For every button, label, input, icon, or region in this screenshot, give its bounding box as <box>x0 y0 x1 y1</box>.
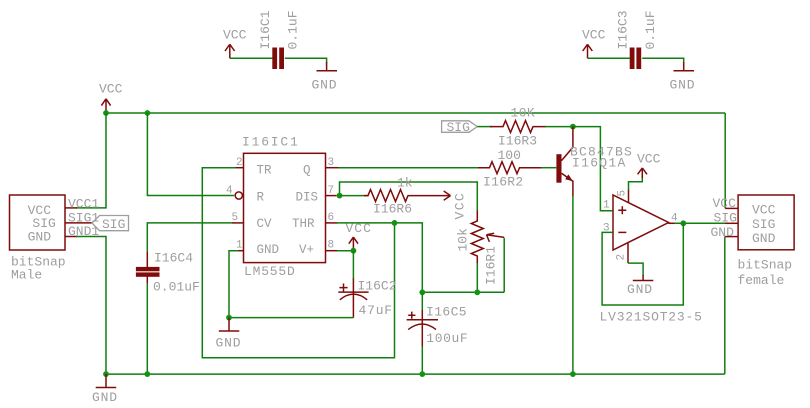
svg-text:VCC: VCC <box>713 196 737 211</box>
capacitor C5 polarized <box>407 292 469 347</box>
wire VCC rail <box>106 112 725 114</box>
node VCC rail left <box>103 110 109 116</box>
wire <box>588 57 630 59</box>
wire pin5 to VCC arrow <box>629 177 643 190</box>
node DIS junction <box>337 193 343 199</box>
svg-text:8: 8 <box>328 239 335 251</box>
pin 3 Q <box>326 157 339 169</box>
supply VCC top-right bypass <box>582 28 606 59</box>
svg-text:VCC: VCC <box>346 221 372 236</box>
svg-text:SIG: SIG <box>447 120 470 135</box>
svg-text:GND: GND <box>257 243 280 257</box>
svg-text:LM555D: LM555D <box>244 264 296 279</box>
wire ground rail <box>106 373 725 375</box>
svg-text:GND: GND <box>752 231 776 246</box>
svg-text:I16C5: I16C5 <box>426 304 467 319</box>
resistor R1 10k vertical <box>456 211 505 286</box>
ground GND mid <box>216 318 242 351</box>
wire R1 bottom <box>476 263 478 292</box>
svg-text:LV321SOT23-5: LV321SOT23-5 <box>600 309 703 324</box>
svg-text:VCC: VCC <box>637 151 661 166</box>
supply VCC main rail arrow <box>99 82 123 114</box>
resistor R2 100 <box>478 148 543 190</box>
svg-text:2: 2 <box>236 157 243 169</box>
wire feedback loop <box>602 223 683 305</box>
svg-text:0.1uF: 0.1uF <box>643 10 658 49</box>
svg-text:3: 3 <box>328 157 335 169</box>
wire female GND to ground rail <box>724 237 726 375</box>
svg-text:V+: V+ <box>299 243 314 257</box>
node THR junction <box>392 220 398 226</box>
node output junction <box>680 220 686 226</box>
wire THR bottom row <box>422 291 504 293</box>
wire THR net <box>337 223 422 292</box>
svg-text:VCC: VCC <box>99 82 123 97</box>
pin 2 TR <box>235 157 244 169</box>
svg-text:0.1uF: 0.1uF <box>286 10 301 49</box>
svg-text:1: 1 <box>236 239 243 251</box>
pin 7 DIS <box>326 185 337 197</box>
svg-text:100: 100 <box>498 148 521 163</box>
pin 6 THR <box>326 212 338 224</box>
wire emitter to ground rail <box>572 196 574 375</box>
svg-text:6: 6 <box>328 212 335 224</box>
wire R1 wiper down <box>503 238 505 292</box>
wire <box>642 58 684 63</box>
node VCC rail reset branch <box>145 110 151 116</box>
wire VCC to VCC1 pin <box>76 113 106 208</box>
op-amp U1 LV321 <box>600 195 703 324</box>
svg-text:10K: 10K <box>511 106 536 121</box>
pin GND female <box>711 225 739 240</box>
svg-text:4: 4 <box>226 185 233 197</box>
wire SIG to R3 <box>477 126 492 128</box>
pin VCC1 <box>65 196 99 211</box>
pin 5 V+ <box>617 190 629 203</box>
wire V+ to VCC arrow <box>337 250 353 252</box>
pin GND1 <box>65 224 99 239</box>
svg-text:100uF: 100uF <box>426 331 468 346</box>
wire <box>230 57 273 59</box>
pin 1 GND <box>236 239 244 251</box>
pin 8 V+ <box>326 239 338 251</box>
wire C5 to ground rail <box>421 346 423 374</box>
svg-text:5: 5 <box>617 190 629 197</box>
svg-text:I16IC1: I16IC1 <box>242 135 300 150</box>
node ground rail emitter <box>570 371 576 377</box>
supply VCC at V+ <box>346 221 372 251</box>
pin 4 R (inverting bubble) <box>226 185 242 199</box>
svg-text:SIG: SIG <box>752 217 775 232</box>
svg-text:1: 1 <box>603 200 610 212</box>
connector J1 bitSnap Male <box>10 195 66 282</box>
svg-text:2: 2 <box>616 254 628 261</box>
svg-text:0.01uF: 0.01uF <box>153 280 200 295</box>
node ground rail C5 <box>419 371 425 377</box>
pin 4 output <box>668 213 678 225</box>
svg-text:I16R3: I16R3 <box>498 134 537 149</box>
wire output to female SIG <box>675 222 726 224</box>
wire R3 to collector node <box>545 126 573 128</box>
wire VCC rail to female VCC pin <box>724 113 726 208</box>
wire TR loop to THR <box>202 168 394 358</box>
svg-text:SIG: SIG <box>714 211 737 226</box>
wire pin2 to ground <box>628 263 643 275</box>
pin SIG1 <box>65 210 99 225</box>
svg-text:I16C3: I16C3 <box>616 10 631 49</box>
transistor Q1 BC847BS <box>556 127 633 197</box>
pin 5 CV <box>232 212 244 224</box>
svg-text:I16C1: I16C1 <box>258 10 273 49</box>
resistor R3 10K <box>490 106 546 149</box>
wire VCC to reset pin <box>147 113 234 196</box>
wire GND1 to ground rail <box>76 237 106 375</box>
node ground rail left <box>103 371 109 377</box>
wire V+ down to C2 <box>352 251 354 280</box>
pin VCC female <box>713 196 739 211</box>
supply VCC arrow right (R6) <box>426 191 468 220</box>
supply VCC at op-amp <box>637 151 661 178</box>
wire R2 to base <box>541 167 556 169</box>
capacitor C3 <box>616 10 659 69</box>
svg-text:GND: GND <box>216 335 242 350</box>
svg-text:GND: GND <box>627 282 653 297</box>
resistor R6 1k <box>364 176 426 217</box>
svg-text:I16C2: I16C2 <box>358 278 397 293</box>
connector J2 bitSnap female <box>738 195 795 288</box>
pin 2 V- <box>616 243 629 263</box>
svg-text:I16C4: I16C4 <box>154 251 193 266</box>
svg-text:GND: GND <box>670 78 696 93</box>
svg-text:DIS: DIS <box>296 191 319 205</box>
label SIG net flag left <box>92 216 129 233</box>
svg-text:47uF: 47uF <box>359 303 393 318</box>
ground GND at C3 <box>670 62 696 93</box>
ground GND bottom <box>92 374 118 405</box>
op IC1 LM555D box <box>242 135 326 279</box>
node C5 top <box>419 289 425 295</box>
capacitor C4 <box>136 251 200 295</box>
svg-text:I16Q1A: I16Q1A <box>572 155 627 170</box>
svg-text:VCC: VCC <box>582 28 606 43</box>
wire collector node to op-amp + <box>573 127 613 211</box>
svg-text:1k: 1k <box>397 176 413 191</box>
label SIG net flag top <box>442 120 478 135</box>
svg-text:bitSnap: bitSnap <box>738 258 793 273</box>
svg-text:5: 5 <box>232 212 239 224</box>
svg-text:I16R2: I16R2 <box>483 175 524 190</box>
svg-text:THR: THR <box>292 217 315 231</box>
svg-text:I16R1: I16R1 <box>483 246 498 285</box>
pin SIG female <box>714 211 739 226</box>
ground GND at C1 <box>312 62 338 93</box>
svg-text:GND: GND <box>312 78 338 93</box>
wire CV net to C4 and ground <box>147 223 232 252</box>
node collector junction <box>570 124 576 130</box>
svg-text:R: R <box>257 191 265 205</box>
svg-text:VCC1: VCC1 <box>68 196 99 211</box>
svg-text:VCC: VCC <box>752 203 776 218</box>
svg-text:female: female <box>738 273 785 288</box>
svg-text:GND: GND <box>711 225 735 240</box>
svg-text:TR: TR <box>257 164 273 178</box>
svg-text:VCC: VCC <box>223 28 247 43</box>
svg-text:Male: Male <box>11 267 42 282</box>
node V+ junction <box>351 248 357 254</box>
node R1 bottom <box>474 289 480 295</box>
wire Q to R2 <box>339 167 481 169</box>
node ground rail C4 <box>144 371 150 377</box>
wire <box>285 58 327 63</box>
svg-text:VCC: VCC <box>453 192 468 220</box>
svg-text:GND: GND <box>92 390 118 405</box>
svg-text:I16R6: I16R6 <box>373 202 412 217</box>
capacitor C1 <box>258 10 301 69</box>
wire DIS to R6 <box>340 195 369 197</box>
svg-text:CV: CV <box>257 217 273 231</box>
svg-text:10k: 10k <box>456 228 471 252</box>
svg-text:GND: GND <box>28 229 52 244</box>
ground GND at op-amp <box>627 275 653 297</box>
svg-text:Q: Q <box>303 164 311 178</box>
wire DIS corner to R1 top <box>340 182 478 211</box>
capacitor C2 polarized <box>338 278 396 317</box>
svg-text:7: 7 <box>328 185 335 197</box>
wire C2 minus to ground node <box>229 317 353 319</box>
svg-text:SIG: SIG <box>102 217 125 232</box>
supply VCC top-left bypass <box>223 28 247 59</box>
wire GND pin1 to ground node <box>229 251 239 318</box>
node ground junction <box>226 315 232 321</box>
